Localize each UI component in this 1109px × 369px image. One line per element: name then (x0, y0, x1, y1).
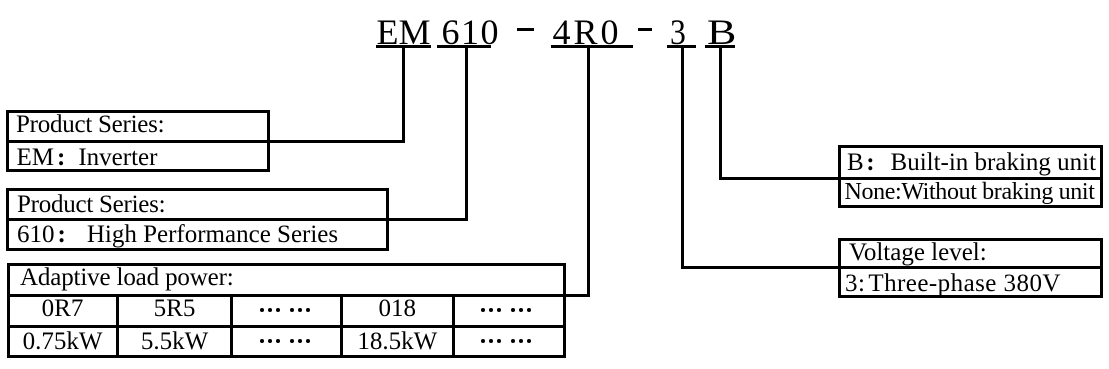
cell 5.5kW (119, 329, 230, 354)
cell 0.75kW (9, 329, 116, 354)
cell dots r2c5 (481, 308, 485, 312)
title segment 3 (670, 14, 686, 50)
wire from EM down (402, 48, 405, 143)
title segment EM (377, 14, 431, 50)
text Product Series 2 (17, 192, 165, 217)
table column line 2 (230, 296, 233, 358)
text Voltage level (849, 240, 987, 265)
table adaptive load power (7, 263, 566, 359)
wire from B down (719, 48, 722, 181)
title segment 610 (442, 14, 501, 50)
text 3 Three-phase 380V (845, 271, 1061, 296)
cell 5R5 (119, 296, 230, 321)
text None Without braking unit (845, 180, 1095, 204)
underline EM (376, 45, 431, 48)
text B Built-in braking unit (847, 150, 1096, 175)
cell dots r2c3 (260, 308, 264, 312)
dash 2 (638, 28, 652, 31)
table column line 1 (116, 296, 119, 358)
box voltage level (838, 238, 1103, 299)
text EM Inverter (17, 145, 158, 170)
text 610 High Performance Series (17, 222, 338, 247)
divider/wire from 3 (681, 266, 1104, 269)
box product series 610 (6, 188, 389, 251)
dash 1 (517, 28, 534, 31)
wire from 610 down (465, 48, 468, 222)
box product series EM (6, 110, 270, 172)
divider/wire from B (719, 177, 1103, 180)
cell dots r3c3 (260, 339, 264, 343)
wire from 4R0 down (587, 48, 590, 298)
title segment B (707, 14, 736, 50)
divider/wire to EM box (6, 140, 405, 143)
text Adaptive load power (20, 265, 234, 290)
table column line 3 (340, 296, 343, 358)
underline 3 (667, 45, 696, 48)
table column line 4 (452, 296, 455, 358)
cell 0R7 (9, 296, 116, 321)
underline 610 (437, 45, 491, 48)
title segment 4R0 (553, 14, 622, 50)
table row divider 2 (7, 325, 565, 328)
divider/wire to 4R0 (7, 294, 590, 297)
cell 018 (343, 296, 453, 321)
underline 4R0 (551, 45, 633, 48)
cell dots r3c5 (481, 339, 485, 343)
cell 18.5kW (343, 329, 453, 354)
box braking unit (838, 145, 1103, 208)
underline B (705, 45, 735, 48)
wire from 3 down (681, 48, 684, 269)
text Product Series 1 (16, 112, 164, 137)
divider/wire to 610 box (6, 218, 468, 221)
